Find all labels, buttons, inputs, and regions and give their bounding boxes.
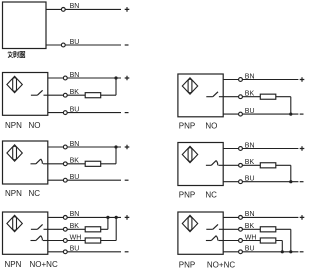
- svg-text:NO+NC: NO+NC: [207, 260, 235, 269]
- NPN-NO+NC terminal circle BN: [63, 216, 67, 220]
- NPN-NO+NC terminal circle WH: [63, 239, 67, 243]
- svg-text:NC: NC: [29, 189, 41, 198]
- PNP-NO+NC terminal circle BN: [239, 216, 243, 220]
- NPN-NO junction dot BK/BN: [114, 76, 117, 79]
- NPN-NO+NC junction dot BK/BN: [106, 216, 109, 219]
- NPN-NO wire BK to BN rail: [115, 78, 117, 95]
- terminal circle BU (transmitter): [61, 43, 65, 47]
- PNP-NO wire BK to BU rail: [290, 97, 292, 114]
- svg-text:BN: BN: [245, 211, 255, 218]
- PNP-NO+NC terminal circle BK: [239, 227, 243, 231]
- PNP-NO+NC label WH: [245, 234, 257, 241]
- PNP-NO+NC minus terminal: [300, 251, 304, 253]
- PNP-NC plus terminal: [300, 146, 305, 151]
- wire BN (transmitter): [46, 8, 121, 10]
- NPN-NO+NC minus terminal: [125, 251, 129, 253]
- NPN-NO+NC junction dot WH/BN: [115, 216, 118, 219]
- NPN-NC caption NPN NC: [5, 189, 40, 198]
- NPN-NO minus terminal: [125, 112, 129, 114]
- NPN-NC minus terminal: [125, 179, 129, 181]
- svg-text:BN: BN: [245, 142, 255, 149]
- label BN (transmitter): [70, 3, 80, 10]
- svg-text:PNP: PNP: [179, 260, 195, 269]
- PNP-NO+NC plus terminal: [300, 215, 305, 220]
- NPN-NO load resistor on BK: [85, 93, 101, 98]
- NPN-NC wire BU: [48, 179, 121, 181]
- PNP-NC junction dot BK/BU: [289, 180, 292, 183]
- PNP-NC wire BU: [223, 181, 298, 183]
- PNP-NC label BN: [245, 142, 255, 149]
- svg-text:BK: BK: [245, 91, 255, 98]
- PNP-NO+NC label BK: [245, 223, 255, 230]
- NPN-NO sensor body box: [3, 73, 48, 116]
- svg-text:BU: BU: [245, 176, 255, 183]
- NPN-NC label BK: [70, 158, 80, 165]
- NPN-NO+NC load resistor on BK: [85, 227, 101, 232]
- PNP-NC wire BN: [223, 148, 298, 150]
- NPN-NO caption NPN NO: [5, 121, 41, 130]
- PNP-NC minus terminal: [300, 181, 304, 183]
- PNP-NO junction dot BK/BU: [289, 113, 292, 116]
- NPN-NC terminal circle BN: [63, 145, 67, 149]
- PNP-NO+NC terminal circle BU: [239, 250, 243, 254]
- PNP-NO+NC NO contact switch: [206, 224, 223, 229]
- PNP-NO wire BK: [223, 96, 291, 98]
- svg-text:BU: BU: [245, 108, 255, 115]
- PNP-NO terminal circle BU: [239, 112, 243, 116]
- NPN-NC plus terminal: [125, 145, 130, 150]
- NPN-NO terminal circle BK: [63, 93, 67, 97]
- PNP-NO+NC load resistor on WH: [260, 238, 276, 243]
- NPN-NC load resistor on BK: [85, 161, 101, 166]
- NPN-NO+NC label WH: [70, 234, 82, 241]
- svg-text:BU: BU: [245, 246, 255, 253]
- PNP-NO+NC NC contact switch: [206, 236, 223, 241]
- PNP-NO+NC wire WH to BU rail: [281, 241, 283, 252]
- NPN-NC label BU: [70, 174, 80, 181]
- svg-text:PNP: PNP: [179, 121, 195, 130]
- svg-text:NO+NC: NO+NC: [30, 260, 58, 269]
- NPN-NO NO contact switch: [31, 90, 48, 95]
- PNP-NO+NC wire BU: [223, 251, 298, 253]
- NPN-NO+NC caption NPN NO+NC: [5, 260, 58, 269]
- NPN-NO+NC label BU: [70, 246, 80, 253]
- NPN-NO+NC NO contact switch: [31, 224, 48, 229]
- PNP-NC wire BK to BU rail: [290, 165, 292, 181]
- svg-text:NO: NO: [29, 121, 41, 130]
- PNP-NO caption PNP NO: [179, 121, 218, 130]
- PNP-NO+NC wire BK: [223, 228, 291, 230]
- PNP-NO+NC caption PNP NO+NC: [179, 260, 236, 269]
- svg-text:BN: BN: [70, 3, 80, 10]
- NPN-NO+NC wire WH to BN rail: [115, 217, 117, 240]
- PNP-NO+NC wire WH: [223, 240, 282, 242]
- NPN-NC wire BN: [48, 146, 121, 148]
- NPN-NO+NC NC contact switch: [31, 236, 48, 241]
- svg-text:BU: BU: [70, 246, 80, 253]
- PNP-NC caption PNP NC: [179, 190, 217, 199]
- PNP-NC terminal circle BN: [239, 147, 243, 151]
- NPN-NO plus terminal: [125, 76, 130, 81]
- PNP-NO terminal circle BN: [239, 78, 243, 82]
- PNP-NC terminal circle BU: [239, 180, 243, 184]
- svg-text:NPN: NPN: [5, 189, 22, 198]
- svg-text:BN: BN: [70, 72, 80, 79]
- PNP-NO+NC load resistor on BK: [260, 227, 276, 232]
- NPN-NC terminal circle BK: [63, 162, 67, 166]
- NPN-NC wire BK: [48, 163, 116, 165]
- transmitter box: [3, 2, 47, 49]
- NPN-NO terminal circle BU: [63, 111, 67, 115]
- svg-text:NPN: NPN: [5, 260, 22, 269]
- NPN-NC label BN: [70, 141, 80, 148]
- PNP-NO proximity sensor symbol: [182, 78, 197, 94]
- svg-text:BN: BN: [70, 211, 80, 218]
- NPN-NO+NC wire BK to BN rail: [107, 217, 109, 229]
- svg-text:BN: BN: [245, 73, 255, 80]
- svg-text:NPN: NPN: [5, 121, 22, 130]
- PNP-NC sensor body box: [178, 143, 223, 186]
- PNP-NC wire BK: [223, 164, 291, 166]
- PNP-NO plus terminal: [300, 77, 305, 82]
- NPN-NO wire BU: [48, 112, 121, 114]
- PNP-NO+NC proximity sensor symbol: [182, 215, 197, 231]
- minus terminal (transmitter): [125, 44, 129, 46]
- svg-text:BK: BK: [70, 223, 80, 230]
- NPN-NC terminal circle BU: [63, 178, 67, 182]
- PNP-NC terminal circle BK: [239, 163, 243, 167]
- PNP-NO wire BN: [223, 79, 298, 81]
- PNP-NO+NC junction dot BK/BU: [289, 250, 292, 253]
- svg-text:NC: NC: [205, 190, 217, 199]
- PNP-NO label BU: [245, 108, 255, 115]
- svg-text:BK: BK: [245, 159, 255, 166]
- wire BU (transmitter): [46, 44, 121, 46]
- NPN-NO wire BK: [48, 94, 116, 96]
- NPN-NO label BN: [70, 72, 80, 79]
- PNP-NO NO contact switch: [206, 92, 223, 97]
- svg-text:BU: BU: [70, 106, 80, 113]
- NPN-NO+NC wire BU: [48, 251, 121, 253]
- svg-text:BU: BU: [70, 174, 80, 181]
- NPN-NO+NC terminal circle BU: [63, 250, 67, 254]
- NPN-NC sensor body box: [3, 141, 48, 184]
- NPN-NO+NC terminal circle BK: [63, 227, 67, 231]
- NPN-NO+NC proximity sensor symbol: [7, 215, 22, 231]
- label BU (transmitter): [70, 39, 80, 46]
- PNP-NC label BK: [245, 159, 255, 166]
- PNP-NO terminal circle BK: [239, 95, 243, 99]
- NPN-NC junction dot BK/BN: [114, 145, 117, 148]
- NPN-NO label BU: [70, 106, 80, 113]
- PNP-NO+NC wire BN: [223, 216, 298, 218]
- svg-text:BK: BK: [245, 223, 255, 230]
- label 发射器: [8, 51, 25, 57]
- NPN-NO+NC wire BN: [48, 216, 121, 218]
- NPN-NO+NC label BN: [70, 211, 80, 218]
- NPN-NO+NC wire BK: [48, 228, 108, 230]
- NPN-NC proximity sensor symbol: [7, 145, 22, 161]
- PNP-NO minus terminal: [300, 113, 304, 115]
- NPN-NC wire BK to BN rail: [115, 147, 117, 164]
- PNP-NO+NC junction dot WH/BU: [281, 250, 284, 253]
- PNP-NO load resistor on BK: [260, 94, 276, 99]
- NPN-NO terminal circle BN: [63, 76, 67, 80]
- PNP-NO+NC label BN: [245, 211, 255, 218]
- PNP-NO+NC sensor body box: [178, 212, 223, 254]
- NPN-NO+NC load resistor on WH: [85, 238, 101, 243]
- svg-text:BN: BN: [70, 141, 80, 148]
- plus terminal (transmitter): [125, 7, 130, 12]
- NPN-NO wire BN: [48, 77, 121, 79]
- svg-text:BK: BK: [70, 158, 80, 165]
- PNP-NC NC contact switch: [206, 161, 223, 166]
- PNP-NO+NC label BU: [245, 246, 255, 253]
- terminal circle BN (transmitter): [61, 7, 65, 11]
- NPN-NO+NC plus terminal: [125, 215, 130, 220]
- PNP-NC load resistor on BK: [260, 163, 276, 168]
- PNP-NO+NC wire BK to BU rail: [290, 229, 292, 252]
- svg-text:WH: WH: [245, 234, 257, 241]
- NPN-NO label BK: [70, 89, 80, 96]
- PNP-NO label BK: [245, 91, 255, 98]
- NPN-NO+NC label BK: [70, 223, 80, 230]
- svg-text:NO: NO: [205, 121, 217, 130]
- NPN-NC NC contact switch: [31, 159, 48, 164]
- PNP-NC proximity sensor symbol: [182, 146, 197, 162]
- NPN-NO+NC wire WH: [48, 240, 116, 242]
- svg-text:BU: BU: [70, 39, 80, 46]
- svg-text:WH: WH: [70, 234, 82, 241]
- NPN-NO+NC sensor body box: [3, 212, 48, 254]
- svg-text:BK: BK: [70, 89, 80, 96]
- PNP-NO wire BU: [223, 113, 298, 115]
- svg-text:PNP: PNP: [179, 190, 195, 199]
- PNP-NO+NC terminal circle WH: [239, 239, 243, 243]
- PNP-NC label BU: [245, 176, 255, 183]
- PNP-NO sensor body box: [178, 74, 223, 117]
- PNP-NO label BN: [245, 73, 255, 80]
- NPN-NO proximity sensor symbol: [7, 76, 22, 92]
